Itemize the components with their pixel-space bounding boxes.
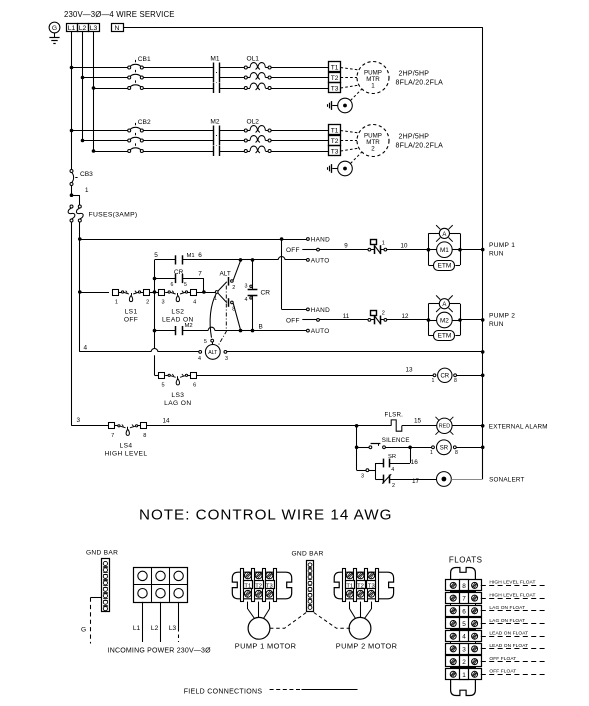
svg-text:7: 7 xyxy=(111,433,114,439)
svg-text:RUN: RUN xyxy=(489,251,504,258)
svg-text:CB2: CB2 xyxy=(138,119,151,126)
svg-text:M1: M1 xyxy=(440,247,449,254)
svg-text:1: 1 xyxy=(115,299,118,305)
svg-text:10: 10 xyxy=(401,243,408,250)
svg-text:11: 11 xyxy=(343,313,350,320)
svg-text:1: 1 xyxy=(432,378,435,384)
svg-text:1: 1 xyxy=(85,187,89,194)
svg-text:230V—3Ø—4 WIRE SERVICE: 230V—3Ø—4 WIRE SERVICE xyxy=(64,10,175,19)
svg-text:OFF: OFF xyxy=(286,318,300,325)
svg-text:3: 3 xyxy=(225,356,228,362)
svg-text:RUN: RUN xyxy=(489,321,504,328)
svg-text:INCOMING POWER 230V—3Ø: INCOMING POWER 230V—3Ø xyxy=(108,647,212,654)
svg-text:6: 6 xyxy=(198,252,202,259)
svg-text:4: 4 xyxy=(462,634,466,641)
svg-text:5: 5 xyxy=(204,339,207,345)
svg-text:8FLA/20.2FLA: 8FLA/20.2FLA xyxy=(396,80,444,87)
svg-text:6: 6 xyxy=(462,608,466,615)
svg-text:L1: L1 xyxy=(133,625,141,632)
svg-text:7: 7 xyxy=(198,271,202,278)
svg-text:GND BAR: GND BAR xyxy=(292,551,324,558)
svg-text:M2: M2 xyxy=(210,119,219,126)
svg-text:LEAD ON FLOAT: LEAD ON FLOAT xyxy=(489,631,528,637)
svg-text:NOTE: CONTROL WIRE 14 AWG: NOTE: CONTROL WIRE 14 AWG xyxy=(139,507,392,524)
svg-text:8: 8 xyxy=(143,433,146,439)
svg-text:2: 2 xyxy=(371,146,375,153)
svg-text:CR: CR xyxy=(174,269,184,276)
svg-text:T1: T1 xyxy=(331,128,339,135)
svg-text:1: 1 xyxy=(430,450,433,456)
svg-text:T2: T2 xyxy=(331,138,339,145)
svg-text:1: 1 xyxy=(371,83,375,90)
svg-text:SILENCE: SILENCE xyxy=(382,437,410,444)
svg-text:B: B xyxy=(259,323,263,330)
svg-text:T3: T3 xyxy=(368,584,375,590)
svg-text:6: 6 xyxy=(171,282,174,288)
svg-text:8: 8 xyxy=(462,583,466,590)
svg-text:A: A xyxy=(442,232,446,238)
svg-text:L3: L3 xyxy=(90,25,98,32)
svg-text:PUMP 2: PUMP 2 xyxy=(489,313,515,320)
svg-text:T1: T1 xyxy=(244,584,251,590)
svg-text:LS3: LS3 xyxy=(171,392,184,399)
svg-text:5: 5 xyxy=(462,621,466,628)
svg-text:ALT: ALT xyxy=(208,350,218,356)
svg-text:FLOATS: FLOATS xyxy=(449,556,483,565)
svg-text:G: G xyxy=(81,627,86,634)
svg-text:2HP/5HP: 2HP/5HP xyxy=(399,134,430,141)
svg-text:CR: CR xyxy=(440,374,449,380)
svg-text:HAND: HAND xyxy=(311,237,330,244)
svg-text:1: 1 xyxy=(382,240,385,246)
svg-text:3: 3 xyxy=(245,284,248,290)
svg-text:RED: RED xyxy=(439,424,450,430)
svg-text:A: A xyxy=(442,302,446,308)
svg-text:FLSR.: FLSR. xyxy=(385,412,404,419)
svg-text:EXTERNAL ALARM: EXTERNAL ALARM xyxy=(489,423,548,430)
svg-text:CB1: CB1 xyxy=(138,56,151,63)
svg-text:N: N xyxy=(115,25,120,32)
svg-text:2: 2 xyxy=(462,659,466,666)
svg-text:L2: L2 xyxy=(79,25,87,32)
svg-text:3: 3 xyxy=(77,417,81,424)
svg-text:HIGH LEVEL: HIGH LEVEL xyxy=(105,450,148,457)
svg-text:HIGH LEVEL FLOAT: HIGH LEVEL FLOAT xyxy=(489,580,535,586)
svg-text:2: 2 xyxy=(146,299,149,305)
svg-text:5: 5 xyxy=(154,252,158,259)
svg-text:T3: T3 xyxy=(266,584,273,590)
svg-text:T3: T3 xyxy=(331,149,339,156)
svg-text:LS2: LS2 xyxy=(171,309,184,316)
svg-text:G: G xyxy=(52,25,57,32)
svg-text:L1: L1 xyxy=(68,25,76,32)
svg-text:8: 8 xyxy=(455,450,458,456)
svg-text:OL1: OL1 xyxy=(247,56,260,63)
svg-text:M2: M2 xyxy=(185,323,193,329)
svg-text:L3: L3 xyxy=(169,625,177,632)
svg-text:ETM: ETM xyxy=(437,333,451,340)
svg-text:15: 15 xyxy=(414,418,422,425)
svg-text:AUTO: AUTO xyxy=(311,328,330,335)
svg-text:OFF: OFF xyxy=(286,247,300,254)
svg-text:9: 9 xyxy=(344,243,348,250)
svg-text:8FLA/20.2FLA: 8FLA/20.2FLA xyxy=(396,143,444,150)
svg-text:T3: T3 xyxy=(331,86,339,93)
svg-text:5: 5 xyxy=(161,383,164,389)
svg-text:L2: L2 xyxy=(151,625,159,632)
svg-text:M2: M2 xyxy=(440,317,449,324)
svg-text:SR: SR xyxy=(440,446,449,452)
svg-text:ALT: ALT xyxy=(220,271,231,278)
svg-text:4: 4 xyxy=(193,299,196,305)
svg-text:FIELD CONNECTIONS: FIELD CONNECTIONS xyxy=(184,688,263,695)
svg-text:3: 3 xyxy=(361,474,364,480)
svg-text:2: 2 xyxy=(232,285,235,291)
svg-text:LAG ON: LAG ON xyxy=(164,400,191,407)
svg-text:T2: T2 xyxy=(357,584,364,590)
svg-text:GND BAR: GND BAR xyxy=(86,550,118,557)
svg-text:PUMP 2 MOTOR: PUMP 2 MOTOR xyxy=(336,642,398,651)
svg-text:4: 4 xyxy=(198,356,201,362)
svg-text:2: 2 xyxy=(392,483,395,489)
svg-text:AUTO: AUTO xyxy=(311,258,330,265)
svg-text:T2: T2 xyxy=(255,584,262,590)
svg-text:T1: T1 xyxy=(331,65,339,72)
svg-text:16: 16 xyxy=(411,459,419,466)
svg-text:13: 13 xyxy=(405,367,413,374)
svg-text:T2: T2 xyxy=(331,75,339,82)
svg-text:LAG ON FLOAT: LAG ON FLOAT xyxy=(489,605,525,611)
svg-text:2HP/5HP: 2HP/5HP xyxy=(399,71,430,78)
svg-text:3: 3 xyxy=(161,299,164,305)
svg-text:M1: M1 xyxy=(210,56,219,63)
svg-text:17: 17 xyxy=(412,478,420,485)
svg-text:LS1: LS1 xyxy=(125,309,138,316)
svg-text:LAG ON FLOAT: LAG ON FLOAT xyxy=(489,618,525,624)
svg-text:4: 4 xyxy=(84,344,88,351)
svg-text:OFF: OFF xyxy=(124,317,138,324)
svg-text:12: 12 xyxy=(402,313,409,320)
svg-text:5: 5 xyxy=(184,282,187,288)
svg-text:3: 3 xyxy=(462,646,466,653)
svg-text:FUSES(3AMP): FUSES(3AMP) xyxy=(89,212,138,219)
svg-text:8: 8 xyxy=(454,378,457,384)
svg-text:ETM: ETM xyxy=(437,262,451,269)
svg-text:2: 2 xyxy=(382,311,385,317)
svg-text:6: 6 xyxy=(193,383,196,389)
svg-text:OFF FLOAT: OFF FLOAT xyxy=(489,656,516,662)
svg-text:SR: SR xyxy=(388,454,396,460)
svg-text:SONALERT: SONALERT xyxy=(489,477,524,484)
svg-text:4: 4 xyxy=(245,297,248,303)
svg-text:7: 7 xyxy=(462,596,466,603)
svg-text:M1: M1 xyxy=(187,253,195,259)
svg-text:4: 4 xyxy=(391,467,394,473)
svg-text:LS4: LS4 xyxy=(120,442,133,449)
svg-text:1: 1 xyxy=(462,672,466,679)
svg-text:OL2: OL2 xyxy=(247,119,260,126)
svg-text:OFF FLOAT: OFF FLOAT xyxy=(489,669,516,675)
svg-text:HAND: HAND xyxy=(311,307,330,314)
svg-text:14: 14 xyxy=(162,417,170,424)
svg-text:PUMP 1: PUMP 1 xyxy=(489,242,515,249)
svg-text:HIGH LEVEL FLOAT: HIGH LEVEL FLOAT xyxy=(489,592,535,598)
svg-text:CR: CR xyxy=(261,290,271,297)
svg-text:PUMP 1 MOTOR: PUMP 1 MOTOR xyxy=(235,642,297,651)
svg-text:T1: T1 xyxy=(346,584,353,590)
svg-text:LEAD ON FLOAT: LEAD ON FLOAT xyxy=(489,643,528,649)
svg-text:CB3: CB3 xyxy=(80,171,93,178)
